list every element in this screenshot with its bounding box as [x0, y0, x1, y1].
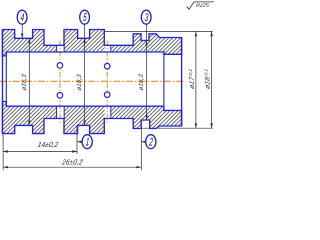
dimension line ø16,3 no.2 + leader balloon 5 [83, 24, 85, 125]
hole gap top left [57, 46, 64, 52]
extension line x=141.3 (balloon 2 / dim 26) [140, 129, 142, 171]
hole circle top-left [57, 63, 63, 69]
left face line [2, 30, 4, 134]
dimension line 26±0,2 [3, 166, 141, 168]
svg-text:Rz25: Rz25 [196, 3, 210, 9]
balloon 4 [17, 10, 27, 24]
balloon 3 [141, 10, 151, 24]
leader line balloon 4 [21, 24, 23, 39]
hole centerline left [59, 41, 61, 124]
part outline bottom (blue) [2, 102, 181, 134]
left inner (thread end) line [5, 52, 7, 106]
svg-text:ø16,3: ø16,3 [138, 73, 145, 91]
svg-text:26±0,2: 26±0,2 [60, 158, 83, 167]
balloon 5 [80, 10, 90, 24]
extension line top right (ø18) [104, 30, 212, 32]
extension line bottom right (ø17) [141, 127, 212, 129]
hole gap bottom right [105, 106, 111, 118]
dimension line 14±0,2 [3, 150, 77, 152]
main axis centerline [0, 80, 186, 82]
balloon 1 [82, 135, 92, 149]
roughness mark Rz25 [187, 2, 214, 9]
part outline top (blue) [2, 30, 181, 56]
extension line x=77.3 (balloon 1 / dim 14) [76, 125, 78, 154]
dimension line ø16,3 no.1 [28, 38, 30, 125]
svg-text:14±0,2: 14±0,2 [37, 140, 59, 149]
hole edges top left [57, 46, 111, 119]
dimension line ø16,3 no.3 + leader balloon 3 [145, 24, 147, 120]
hole circle bottom-right [104, 92, 110, 98]
top wall section (hatched) [2, 30, 181, 56]
hole gap bottom left [57, 106, 64, 118]
hole gap top right [105, 46, 111, 52]
right pocket left wall [163, 52, 165, 110]
balloon 2 [146, 135, 156, 149]
right end face [181, 38, 183, 127]
svg-text:ø16,3: ø16,3 [76, 73, 83, 91]
hole centerline right [106, 41, 108, 124]
dimension line ø17 [195, 31, 197, 128]
leader balloon 2 [141, 141, 146, 143]
hole circle top-right [104, 63, 110, 69]
extension line left [2, 134, 4, 171]
hole circle bottom-left [57, 93, 63, 99]
dimension line ø18 [210, 31, 212, 128]
svg-text:ø16,3: ø16,3 [21, 73, 28, 91]
leader balloon 1 [77, 141, 82, 143]
bottom wall section (hatched) [2, 102, 181, 134]
